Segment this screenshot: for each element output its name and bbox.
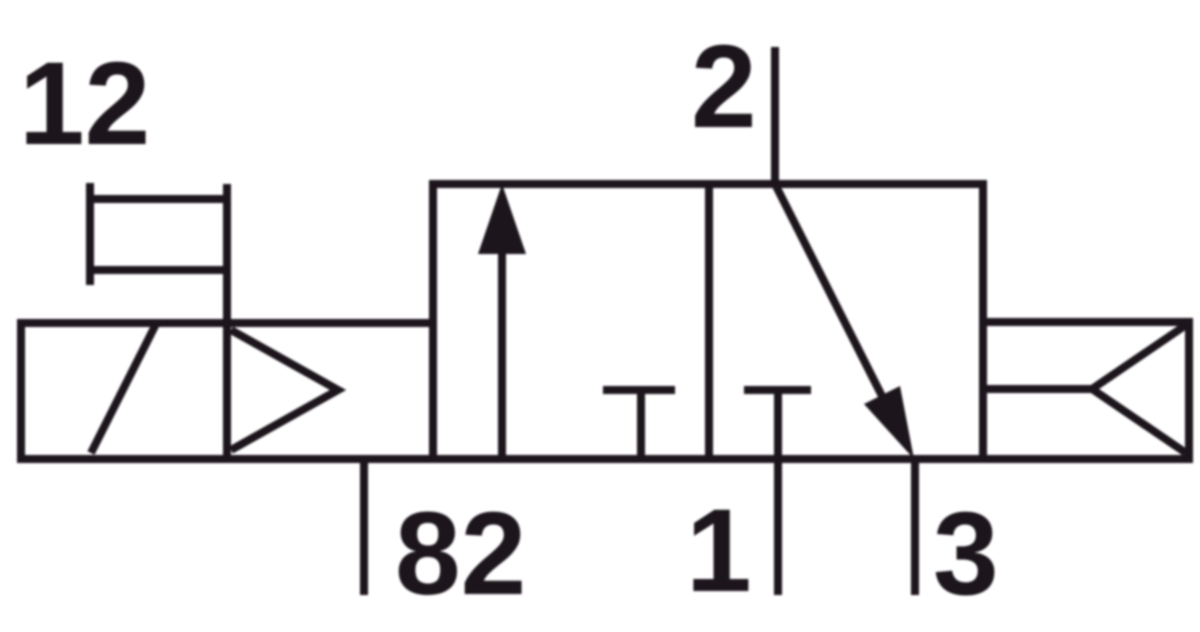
svg-text:1: 1 [686,485,752,617]
svg-text:12: 12 [19,38,150,170]
svg-text:2: 2 [691,21,757,153]
svg-text:3: 3 [933,488,999,620]
svg-text:82: 82 [395,488,526,620]
